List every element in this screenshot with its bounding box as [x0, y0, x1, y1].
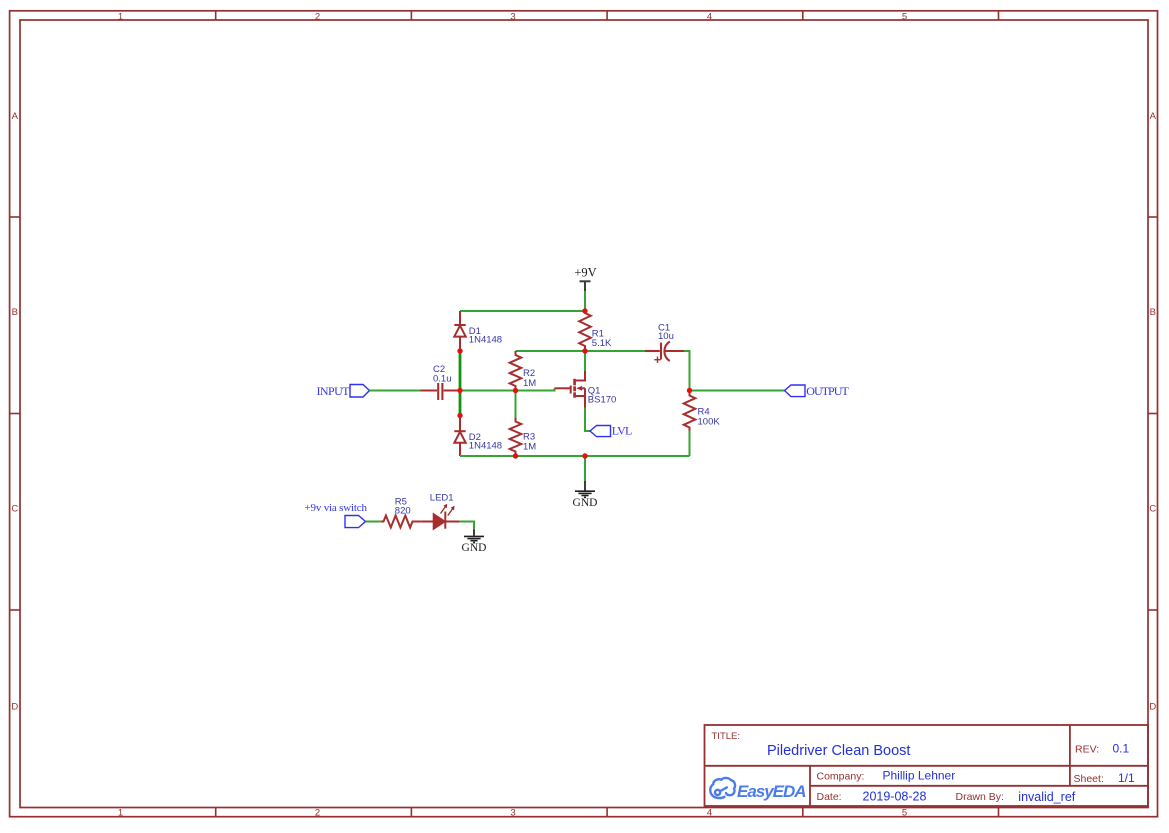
svg-text:0.1: 0.1 [1113, 742, 1130, 756]
svg-text:5: 5 [902, 12, 907, 23]
label D2 1N4148 [469, 432, 502, 452]
diode D2 [454, 416, 465, 457]
diode D1 [454, 311, 465, 351]
svg-text:1N4148: 1N4148 [469, 335, 502, 346]
node junction output [687, 388, 692, 393]
label D1 1N4148 [469, 326, 502, 346]
svg-text:2019-08-28: 2019-08-28 [863, 789, 927, 803]
wire doubled vertical D1-D2 [459, 351, 462, 416]
net flag +9v via switch [305, 502, 368, 528]
LED1 arrows [441, 504, 455, 516]
svg-text:1: 1 [118, 12, 123, 23]
svg-text:Date:: Date: [817, 791, 842, 803]
svg-text:Phillip Lehner: Phillip Lehner [883, 769, 956, 783]
capacitor C1 [645, 342, 684, 362]
node junction D1 bottom [457, 348, 462, 353]
svg-text:5: 5 [902, 808, 907, 819]
node junction C2 right [457, 388, 462, 393]
frame column ticks top [216, 11, 999, 20]
svg-text:invalid_ref: invalid_ref [1018, 790, 1076, 804]
transistor Q1 BS170 [555, 371, 586, 408]
svg-text:+9V: +9V [574, 266, 596, 280]
svg-text:Sheet:: Sheet: [1074, 773, 1104, 785]
svg-text:+9v via switch: +9v via switch [305, 502, 368, 514]
resistor R1 [579, 311, 591, 351]
wire flag to R5 [366, 521, 381, 523]
svg-text:100K: 100K [698, 416, 721, 427]
svg-text:4: 4 [707, 808, 712, 819]
svg-text:LVL: LVL [612, 423, 633, 437]
frame column numbers bottom [118, 808, 907, 819]
svg-text:INPUT: INPUT [317, 384, 351, 398]
node junction at R1 top [582, 308, 587, 313]
svg-text:2: 2 [315, 12, 320, 23]
svg-text:Piledriver Clean Boost: Piledriver Clean Boost [767, 743, 910, 759]
resistor R2 [510, 351, 522, 391]
node junction R3 bottom [513, 453, 518, 458]
svg-text:B: B [12, 307, 18, 318]
node junction GND stem [582, 453, 587, 458]
label R2 1M [523, 368, 536, 389]
C1 plus sign [654, 357, 660, 363]
capacitor C2 [421, 383, 461, 400]
svg-text:1: 1 [118, 808, 123, 819]
svg-text:10u: 10u [658, 331, 674, 342]
wire top rail to D1 [460, 310, 585, 312]
svg-text:REV:: REV: [1075, 744, 1099, 756]
svg-text:0.1u: 0.1u [433, 374, 452, 385]
label Q1 BS170 [588, 385, 617, 405]
wire R3 top [515, 391, 517, 418]
net flag OUTPUT [785, 384, 850, 398]
label R4 100K [698, 407, 721, 428]
svg-text:D: D [11, 702, 18, 713]
svg-text:C: C [11, 504, 18, 515]
wire R4 bottom [689, 431, 691, 457]
ground GND main [575, 481, 595, 497]
svg-text:LED1: LED1 [430, 493, 454, 504]
wire Q1 source to LVL [585, 408, 590, 432]
frame row ticks left [10, 217, 20, 610]
frame row letters right [1149, 111, 1156, 713]
svg-text:1N4148: 1N4148 [469, 441, 502, 452]
LED LED1 [421, 512, 459, 529]
wire Q1 drain [584, 351, 586, 371]
wire to OUTPUT [690, 390, 785, 392]
svg-text:820: 820 [395, 505, 411, 516]
frame row ticks right [1148, 217, 1158, 610]
svg-text:B: B [1150, 307, 1156, 318]
title block frame [705, 725, 1149, 806]
svg-text:BS170: BS170 [588, 394, 617, 405]
frame row letters left [11, 111, 18, 713]
svg-text:GND: GND [573, 497, 598, 509]
label R3 1M [523, 432, 536, 453]
svg-text:1M: 1M [523, 442, 536, 453]
svg-text:4: 4 [707, 12, 712, 23]
wire C1 to output corner [684, 351, 690, 391]
wire +9V stem [584, 291, 586, 311]
node junction R1 bottom [582, 348, 587, 353]
svg-text:A: A [12, 111, 19, 122]
node junction R2 bottom [513, 388, 518, 393]
svg-text:OUTPUT: OUTPUT [806, 384, 849, 398]
label C2 0.1u [433, 364, 452, 385]
wire ground rail [460, 455, 690, 457]
resistor R4 [684, 391, 696, 431]
wire gate jog [516, 388, 555, 390]
svg-text:C: C [1149, 504, 1156, 515]
label R1 5.1K [592, 329, 612, 350]
label C1 10u [658, 323, 674, 342]
wire input rail to R2 [460, 390, 516, 392]
EasyEDA logo cloud [710, 778, 735, 798]
resistor R3 [510, 417, 522, 456]
wire LED to GND [459, 522, 474, 530]
wire input to C2 [370, 390, 421, 392]
svg-text:1M: 1M [523, 378, 536, 389]
svg-text:1/1: 1/1 [1118, 771, 1135, 785]
svg-text:5.1K: 5.1K [592, 338, 612, 349]
net flag LVL [590, 423, 632, 437]
Q1 arrow [576, 386, 582, 391]
frame column ticks bottom [216, 808, 999, 817]
label R5 820 [395, 497, 411, 517]
svg-text:Drawn By:: Drawn By: [956, 791, 1004, 803]
svg-text:3: 3 [510, 808, 515, 819]
wire R2 top rail [516, 350, 646, 352]
resistor R5 [381, 516, 421, 528]
svg-text:EasyEDA: EasyEDA [737, 782, 807, 801]
svg-text:GND: GND [462, 542, 487, 554]
svg-text:TITLE:: TITLE: [712, 731, 741, 742]
svg-text:A: A [1150, 111, 1157, 122]
node junction D2 top [457, 413, 462, 418]
svg-text:Company:: Company: [817, 770, 865, 782]
net flag INPUT [317, 384, 370, 398]
wire GND stem [584, 456, 586, 481]
svg-text:D: D [1149, 702, 1156, 713]
svg-text:3: 3 [510, 12, 515, 23]
frame column numbers top [118, 12, 907, 23]
power flag +9V [574, 266, 596, 292]
ground GND LED [464, 530, 484, 543]
svg-text:2: 2 [315, 808, 320, 819]
